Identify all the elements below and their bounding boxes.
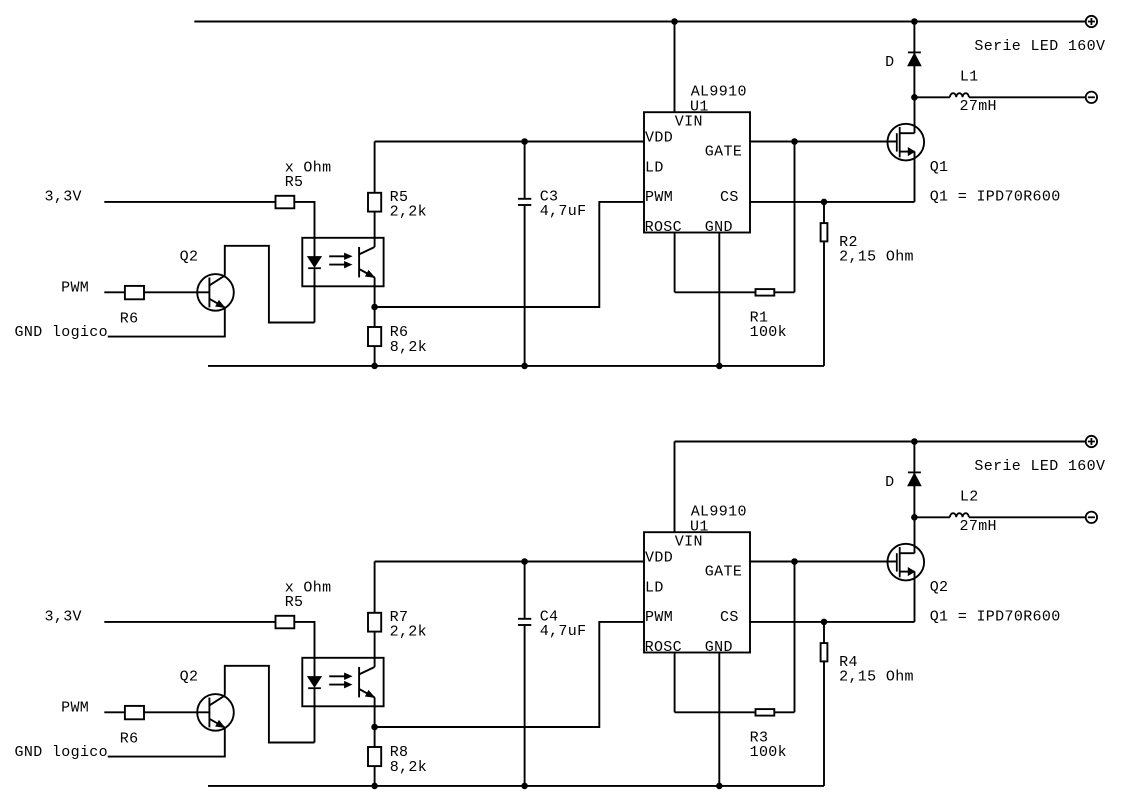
wire transistor collector to LED cathode	[225, 666, 315, 743]
wire VIN pin to top rail	[674, 442, 676, 533]
svg-text:D: D	[885, 54, 894, 71]
node capacitor junction on VDD rail	[522, 559, 528, 565]
svg-text:LD: LD	[645, 580, 664, 597]
svg-text:Serie LED 160V: Serie LED 160V	[974, 458, 1105, 475]
wire CS pin rail	[750, 201, 915, 203]
svg-text:D: D	[885, 474, 894, 491]
svg-text:Q1 = IPD70R600: Q1 = IPD70R600	[930, 608, 1061, 625]
wire GND pin to bottom rail	[718, 233, 720, 366]
resistor R3 100k oscillator	[675, 711, 756, 713]
wire PWM pin to optocoupler emitter	[375, 202, 644, 307]
wire bottom ground rail	[208, 365, 824, 367]
svg-text:VDD: VDD	[645, 549, 673, 566]
resistor R7 2,2k pull-up	[374, 562, 376, 613]
svg-text:PWM: PWM	[61, 700, 89, 717]
wire top positive rail	[194, 21, 1085, 23]
terminal - output	[1086, 512, 1097, 523]
svg-text:LD: LD	[645, 160, 664, 177]
optocoupler box	[302, 238, 383, 286]
wire R5 to LED anode	[294, 202, 314, 238]
wire transistor emitter to logic ground	[108, 308, 225, 337]
svg-text:GATE: GATE	[705, 143, 742, 160]
wire diode branch vertical	[913, 22, 915, 98]
node diode junction on top rail	[912, 439, 918, 445]
optocoupler light arrow 1	[329, 675, 345, 677]
transistor Q2 power MOSFET	[888, 544, 925, 581]
svg-text:Q1: Q1	[930, 159, 949, 176]
svg-text:Q1 = IPD70R600: Q1 = IPD70R600	[930, 188, 1061, 205]
svg-text:L2: L2	[960, 489, 979, 506]
svg-text:R5: R5	[285, 594, 304, 611]
optocoupler phototransistor	[358, 247, 360, 277]
svg-text:ROSC: ROSC	[645, 639, 682, 656]
svg-text:27mH: 27mH	[960, 518, 997, 535]
wire GATE pin to MOSFET gate	[750, 141, 897, 143]
transistor Q1 power MOSFET	[888, 124, 925, 161]
optocoupler box	[302, 658, 383, 707]
inductor L1 27mH	[914, 96, 950, 98]
terminal + output	[1086, 436, 1097, 447]
node R bottom junction	[372, 363, 378, 369]
node IC ground junction	[717, 363, 723, 369]
svg-text:GATE: GATE	[705, 563, 742, 580]
svg-text:100k: 100k	[750, 324, 787, 341]
svg-text:8,2k: 8,2k	[390, 339, 427, 356]
wire GATE pin to MOSFET gate	[750, 561, 897, 563]
transistor Q2 NPN	[197, 274, 234, 311]
wire VDD rail left segment	[375, 141, 644, 143]
resistor R5 x Ohm series LED resistor	[276, 616, 295, 629]
node capacitor junction on VDD rail	[522, 139, 528, 145]
wire ROSC pin down	[674, 233, 676, 293]
svg-text:8,2k: 8,2k	[390, 759, 427, 776]
wire R oscillator up to gate junction	[794, 142, 796, 293]
transistor Q2 NPN	[197, 694, 234, 731]
wire R6 to transistor base	[144, 711, 209, 713]
wire R5 to LED anode	[294, 622, 314, 658]
wire diode branch vertical	[913, 442, 915, 518]
resistor R8 8,2k pull-down	[374, 727, 376, 747]
optocoupler LED	[314, 238, 316, 257]
diode D	[908, 51, 921, 53]
wire transistor collector to LED cathode	[225, 246, 315, 323]
capacitor C3 4,7uF	[524, 142, 526, 198]
wire VIN pin to top rail	[674, 22, 676, 113]
svg-text:2,2k: 2,2k	[390, 204, 427, 221]
svg-text:L1: L1	[960, 69, 979, 86]
resistor R6 base resistor	[125, 706, 144, 719]
inductor L2 27mH	[914, 516, 950, 518]
node diode / inductor junction	[912, 515, 918, 521]
wire PWM pin to optocoupler emitter	[375, 622, 644, 727]
resistor R1 100k oscillator	[675, 291, 756, 293]
svg-text:GND logico: GND logico	[15, 744, 109, 761]
resistor R2 2,15 Ohm current sense	[823, 202, 825, 223]
wire MOSFET source to CS rail	[914, 152, 916, 202]
svg-text:Q2: Q2	[180, 248, 199, 265]
wire bottom ground rail	[208, 785, 824, 787]
wire MOSFET drain	[914, 517, 916, 553]
wire 3,3V supply input	[104, 201, 275, 203]
node gate / R-divider junction	[792, 139, 798, 145]
svg-text:4,7uF: 4,7uF	[540, 623, 587, 640]
wire GND pin to bottom rail	[718, 653, 720, 786]
svg-text:VIN: VIN	[675, 534, 703, 551]
svg-text:Serie LED 160V: Serie LED 160V	[974, 38, 1105, 55]
svg-text:Q2: Q2	[930, 579, 949, 596]
svg-text:CS: CS	[720, 609, 739, 626]
svg-text:GND logico: GND logico	[15, 324, 109, 341]
resistor R4 2,15 Ohm current sense	[823, 622, 825, 643]
wire R oscillator up to gate junction	[794, 562, 796, 713]
resistor R6 base resistor	[125, 286, 144, 299]
terminal + output	[1086, 16, 1097, 27]
svg-text:VIN: VIN	[675, 114, 703, 131]
node gate / R-divider junction	[792, 559, 798, 565]
wire optocoupler emitter down	[374, 277, 376, 307]
svg-text:ROSC: ROSC	[645, 219, 682, 236]
wire MOSFET source to CS rail	[914, 572, 916, 622]
optocoupler LED	[314, 658, 316, 677]
node VIN junction on top rail	[672, 19, 678, 25]
svg-text:U1: U1	[690, 519, 709, 536]
svg-text:27mH: 27mH	[960, 98, 997, 115]
node diode junction on top rail	[912, 19, 918, 25]
node capacitor bottom junction	[522, 363, 528, 369]
svg-text:4,7uF: 4,7uF	[540, 203, 587, 220]
wire VDD rail left segment	[375, 561, 644, 563]
node emitter / divider junction	[372, 304, 378, 310]
wire MOSFET drain	[914, 97, 916, 133]
diode D	[908, 471, 921, 473]
resistor R5 2,2k pull-up	[374, 142, 376, 193]
svg-text:2,15 Ohm: 2,15 Ohm	[839, 248, 914, 265]
svg-text:PWM: PWM	[645, 189, 673, 206]
wire 3,3V supply input	[104, 621, 275, 623]
wire PWM logic input	[104, 711, 125, 713]
wire optocoupler emitter down	[374, 697, 376, 727]
svg-text:PWM: PWM	[645, 609, 673, 626]
node CS / sense resistor junction	[821, 619, 827, 625]
terminal - output	[1086, 92, 1097, 103]
capacitor C4 4,7uF	[524, 562, 526, 618]
node diode / inductor junction	[912, 95, 918, 101]
wire CS pin rail	[750, 621, 915, 623]
svg-text:R6: R6	[120, 730, 139, 747]
svg-text:R6: R6	[120, 310, 139, 327]
node emitter / divider junction	[372, 724, 378, 730]
svg-text:2,15 Ohm: 2,15 Ohm	[839, 668, 914, 685]
resistor R5 x Ohm series LED resistor	[276, 196, 295, 209]
optocoupler light arrow 2	[329, 684, 345, 686]
svg-text:PWM: PWM	[61, 280, 89, 297]
op-amp U1 AL9910 LED driver IC	[644, 112, 750, 232]
svg-text:3,3V: 3,3V	[45, 609, 82, 626]
wire R6 to transistor base	[144, 291, 209, 293]
node R bottom junction	[372, 783, 378, 789]
svg-text:3,3V: 3,3V	[45, 189, 82, 206]
optocoupler phototransistor	[358, 667, 360, 697]
op-amp U1 AL9910 LED driver IC	[644, 532, 750, 652]
node IC ground junction	[717, 783, 723, 789]
wire transistor emitter to logic ground	[108, 728, 225, 757]
svg-text:100k: 100k	[750, 744, 787, 761]
wire top positive rail	[675, 441, 1086, 443]
wire ROSC pin down	[674, 653, 676, 713]
node capacitor bottom junction	[522, 783, 528, 789]
wire PWM logic input	[104, 291, 125, 293]
node CS / sense resistor junction	[821, 199, 827, 205]
optocoupler light arrow 2	[329, 264, 345, 266]
optocoupler light arrow 1	[329, 255, 345, 257]
svg-text:2,2k: 2,2k	[390, 624, 427, 641]
svg-text:Q2: Q2	[180, 668, 199, 685]
svg-text:VDD: VDD	[645, 129, 673, 146]
resistor R6 8,2k pull-down	[374, 307, 376, 327]
svg-text:U1: U1	[690, 99, 709, 116]
svg-text:CS: CS	[720, 189, 739, 206]
svg-text:R5: R5	[285, 174, 304, 191]
